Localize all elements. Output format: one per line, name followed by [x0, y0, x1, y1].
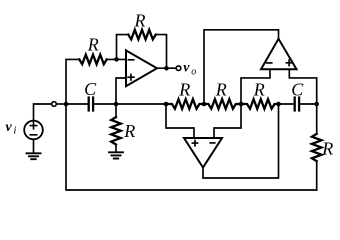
svg-text:R: R: [253, 80, 265, 100]
terminal (input): [52, 102, 57, 107]
wire C1 to node B: [94, 103, 166, 105]
svg-text:R: R: [87, 35, 99, 55]
wire node A to C1: [66, 103, 88, 105]
svg-text:R: R: [215, 80, 227, 100]
node U3-output junction: [276, 102, 281, 107]
capacitor C2: [295, 98, 299, 111]
svg-text:v: v: [6, 120, 13, 135]
wire R1 to U1 inverting input: [107, 58, 126, 60]
wire source bottom to ground: [33, 139, 35, 153]
resistor R1: [79, 55, 106, 65]
wire feedback right vertical to output: [156, 35, 167, 69]
node U1 inverting input: [114, 57, 119, 62]
wire U3 output loop: [203, 104, 279, 178]
wire C2 to node D: [300, 103, 316, 105]
node U2-output junction: [202, 102, 207, 107]
svg-text:o: o: [191, 66, 196, 77]
wire U1 non-inverting input: [116, 78, 126, 104]
node A junction: [64, 102, 69, 107]
node C junction: [239, 102, 244, 107]
resistor R4: [166, 99, 204, 109]
op-amp U2: [261, 39, 297, 69]
svg-text:v: v: [183, 60, 190, 75]
svg-text:i: i: [13, 124, 16, 136]
terminal vo: [176, 66, 181, 71]
svg-text:C: C: [84, 79, 97, 99]
svg-text:C: C: [291, 80, 304, 100]
svg-text:R: R: [123, 121, 135, 141]
wire node to C2: [279, 103, 294, 105]
wire node C up to U2 inverting input: [241, 69, 270, 104]
capacitor C1: [89, 98, 93, 111]
op-amp U1: [126, 50, 157, 86]
node B junction: [164, 102, 169, 107]
wire feedback left vertical: [117, 35, 129, 60]
wire source top to terminal: [34, 104, 52, 121]
wire node D down to R7: [316, 104, 318, 134]
resistor R5: [204, 99, 241, 109]
ground (below source): [27, 153, 41, 159]
label v_o: [183, 60, 196, 77]
wire node A up to R1: [66, 59, 79, 104]
resistor R2 (feedback): [128, 30, 155, 40]
resistor R7: [312, 134, 322, 161]
wire U1 output: [157, 67, 176, 69]
wire bottom rail: [66, 104, 317, 190]
node grounded-R junction: [114, 102, 119, 107]
wire R3 to ground: [115, 145, 117, 153]
wire R7 to bottom rail: [316, 161, 318, 190]
resistor R6: [241, 99, 279, 109]
wire node D up to U2 non-inverting input: [289, 69, 316, 104]
ground (below R3): [109, 152, 123, 158]
wire junction down to R3: [115, 104, 117, 117]
node D junction: [314, 102, 319, 107]
wire U2 output loop: [204, 30, 279, 104]
wire node B down to U3 non-inverting input: [166, 104, 194, 138]
wire node C down to U3 inverting input: [214, 104, 241, 138]
label v_i: [6, 120, 17, 136]
svg-text:R: R: [134, 10, 146, 30]
resistor R3 (to ground): [111, 117, 121, 144]
node U1 output junction: [164, 66, 169, 71]
svg-text:R: R: [178, 80, 190, 100]
svg-text:R: R: [321, 139, 333, 159]
voltage source vi: [24, 121, 43, 140]
wire terminal to node A: [57, 103, 66, 105]
op-amp U3: [184, 138, 222, 168]
